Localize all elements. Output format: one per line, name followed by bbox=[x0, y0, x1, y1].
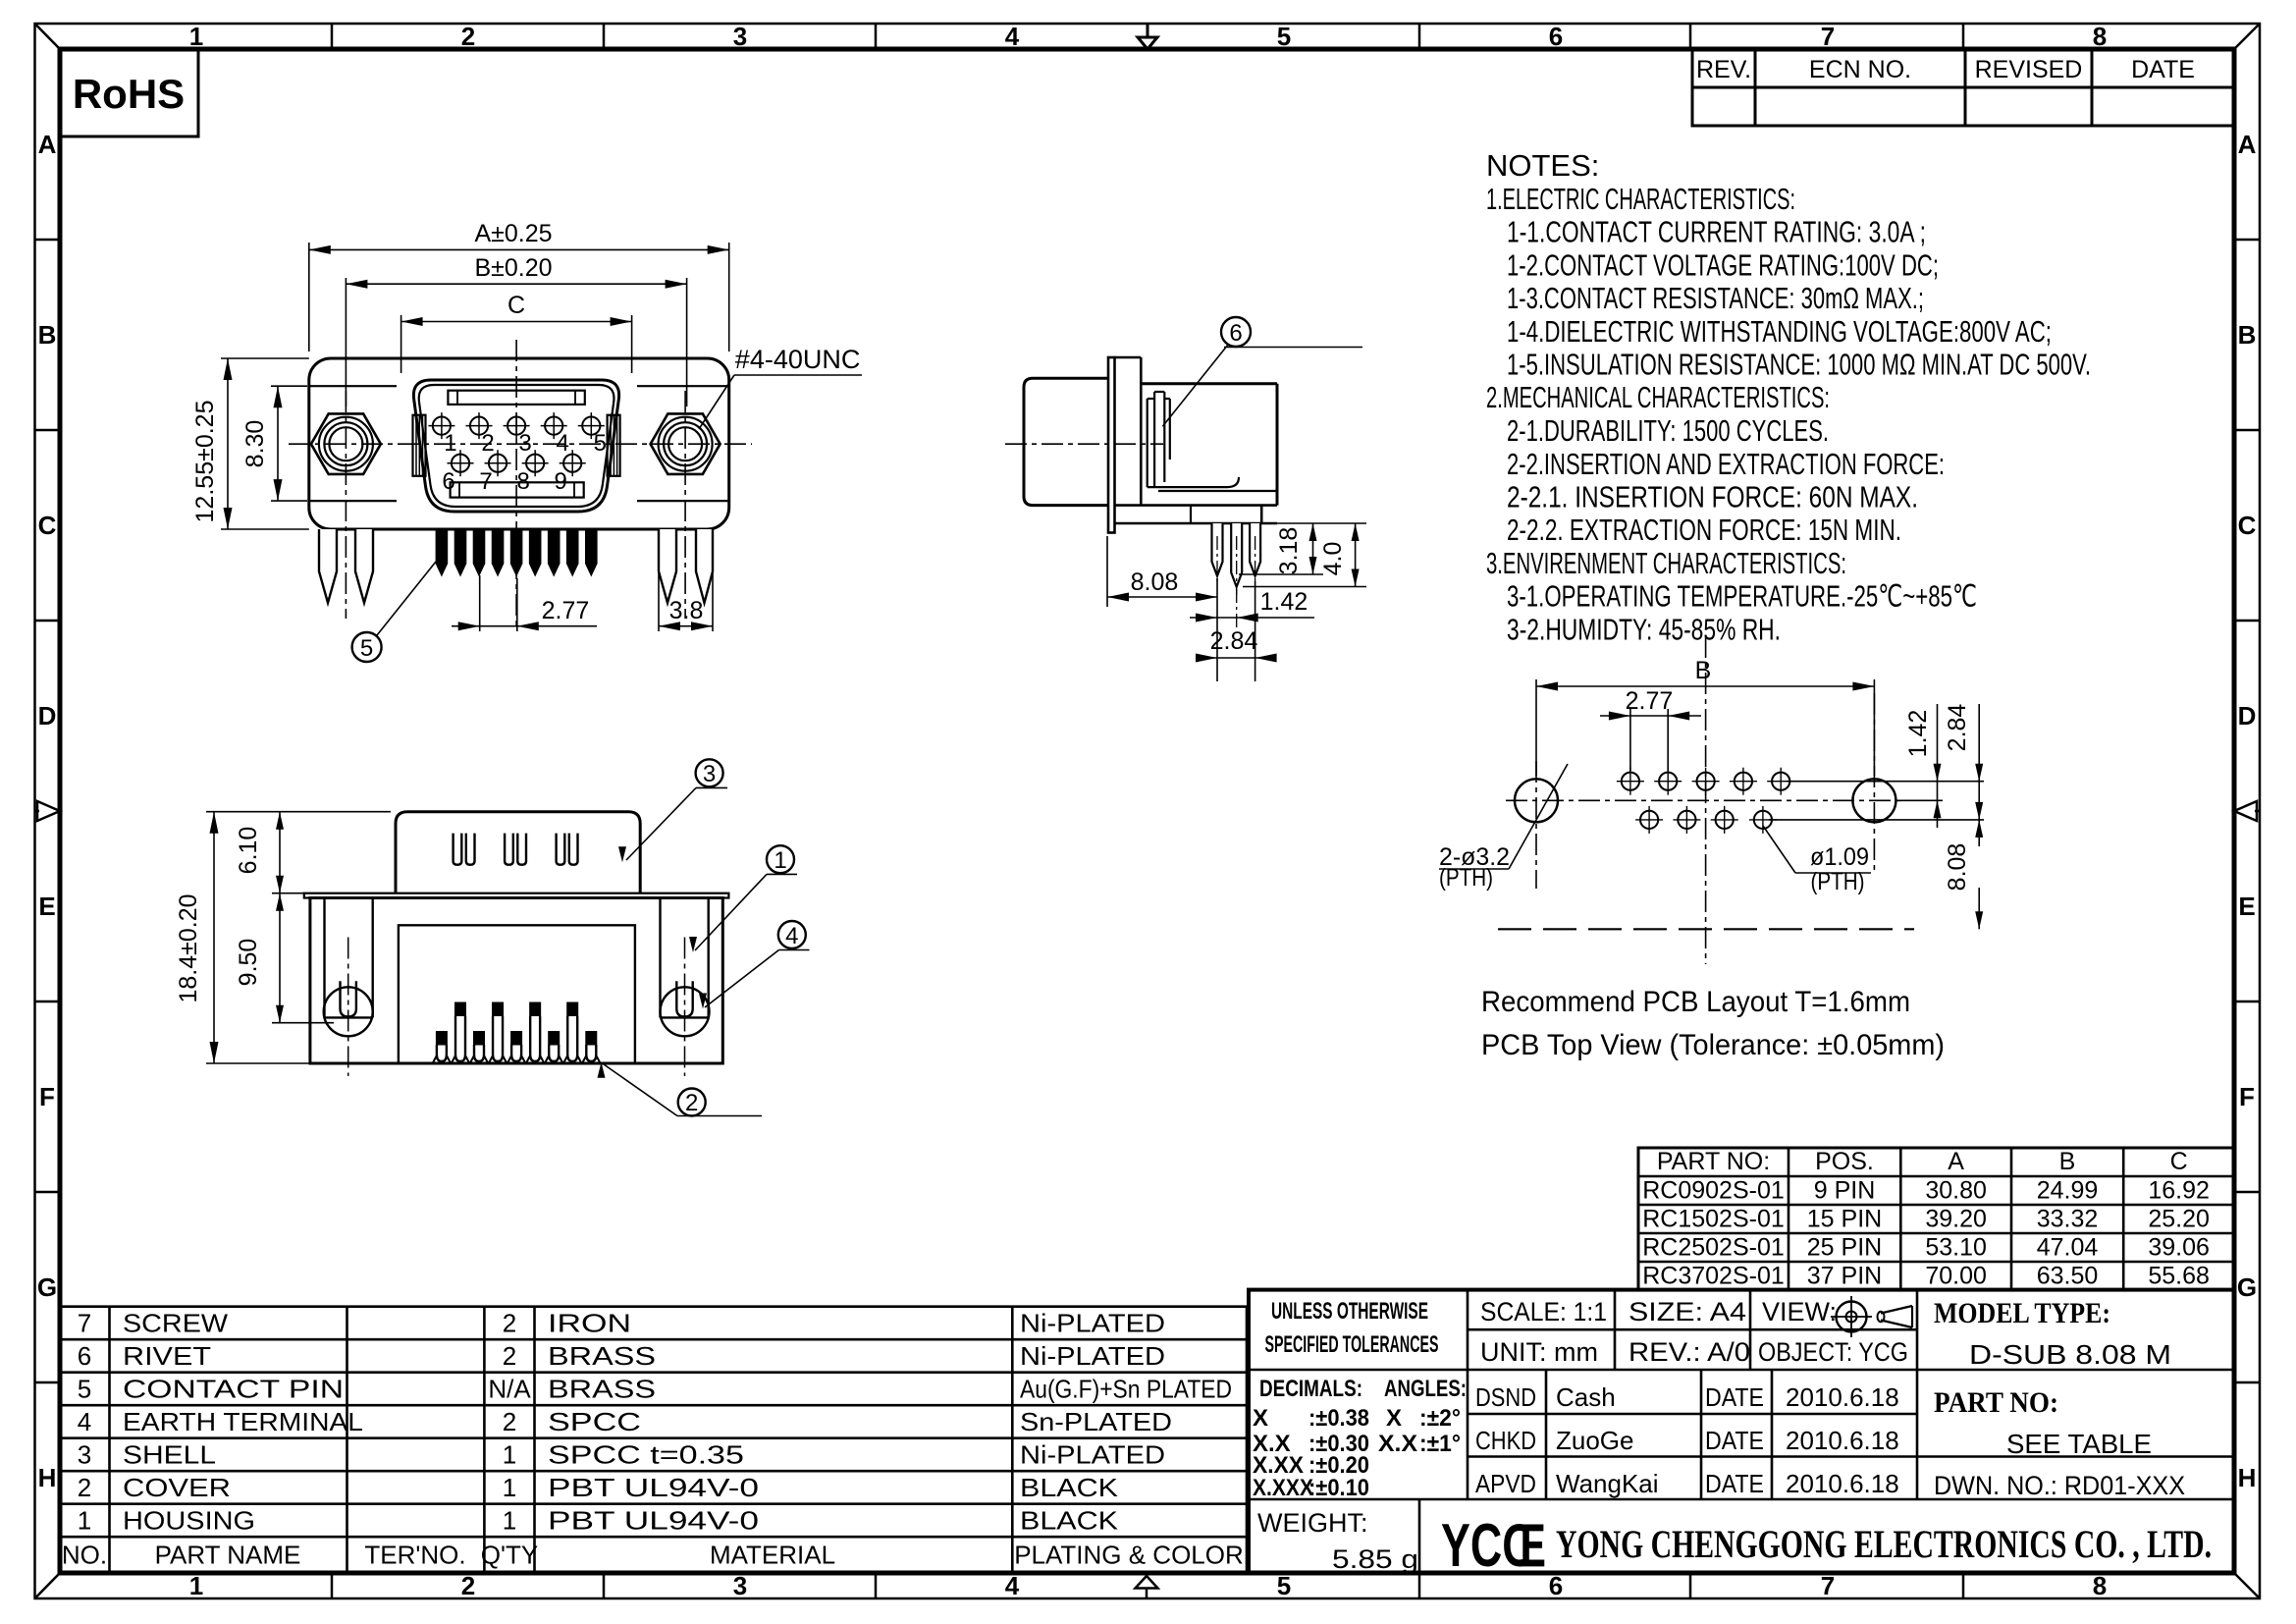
svg-text:DATE: DATE bbox=[1705, 1382, 1764, 1412]
top view: right rivet bbox=[661, 938, 710, 1076]
svg-text:C: C bbox=[507, 292, 525, 319]
svg-text:Ni-PLATED: Ni-PLATED bbox=[1020, 1440, 1165, 1470]
zone tick marks left/right bbox=[35, 240, 2261, 1382]
svg-text:2: 2 bbox=[481, 430, 494, 457]
top view: front row solder tails bbox=[433, 1031, 600, 1063]
svg-text:SEE TABLE: SEE TABLE bbox=[2006, 1429, 2152, 1459]
parts list header row bbox=[62, 1541, 1244, 1570]
front view: flange rolled edges bbox=[309, 386, 729, 501]
svg-text:1.ELECTRIC CHARACTERISTICS:: 1.ELECTRIC CHARACTERISTICS: bbox=[1486, 182, 1795, 216]
svg-text:EARTH TERMINAL: EARTH TERMINAL bbox=[123, 1407, 363, 1436]
label dia1.09 PTH leader bbox=[1763, 826, 1871, 895]
scale size view row bbox=[1480, 1297, 1837, 1326]
svg-text:2010.6.18: 2010.6.18 bbox=[1786, 1426, 1899, 1455]
svg-text:1.42: 1.42 bbox=[1260, 588, 1308, 616]
svg-text:5.85 g: 5.85 g bbox=[1332, 1544, 1418, 1574]
svg-text:7: 7 bbox=[479, 468, 492, 495]
svg-text:4.0: 4.0 bbox=[1319, 542, 1347, 576]
svg-text:1-2.CONTACT VOLTAGE RATING:100: 1-2.CONTACT VOLTAGE RATING:100V DC; bbox=[1507, 248, 1939, 283]
svg-text:PART NO:: PART NO: bbox=[1657, 1148, 1770, 1175]
svg-text:4: 4 bbox=[785, 923, 798, 949]
svg-text:1: 1 bbox=[189, 1571, 203, 1600]
dimension C bbox=[401, 292, 632, 373]
svg-text:OBJECT: YCG: OBJECT: YCG bbox=[1758, 1337, 1908, 1367]
notes text block bbox=[1486, 148, 2091, 647]
label 2-dia3.2 PTH leader bbox=[1439, 764, 1568, 892]
RoHS label box bbox=[60, 49, 198, 136]
svg-text::±0.10: :±0.10 bbox=[1308, 1475, 1369, 1501]
dimension B±0.20 bbox=[346, 254, 686, 406]
svg-text:X.XXX: X.XXX bbox=[1253, 1475, 1313, 1501]
svg-text:REV.: REV. bbox=[1696, 56, 1751, 83]
pcb layout: vertical centerline bbox=[1705, 636, 1707, 964]
svg-text:A±0.25: A±0.25 bbox=[474, 220, 552, 247]
svg-text:1-1.CONTACT CURRENT RATING: 3.: 1-1.CONTACT CURRENT RATING: 3.0A ; bbox=[1507, 215, 1926, 249]
top view: left rivet bbox=[324, 938, 373, 1076]
svg-text:7: 7 bbox=[1821, 22, 1835, 51]
svg-text:YONG CHENGGONG ELECTRONICS CO.: YONG CHENGGONG ELECTRONICS CO. , LTD. bbox=[1556, 1522, 2212, 1566]
svg-text:CHKD: CHKD bbox=[1475, 1426, 1536, 1455]
balloon 1 housing callout bbox=[689, 845, 797, 952]
svg-text:PART NAME: PART NAME bbox=[155, 1541, 301, 1570]
left centering mark arrow bbox=[35, 801, 61, 821]
svg-text:2-2.1. INSERTION FORCE: 60N: 2-2.1. INSERTION FORCE: 60N MAX. bbox=[1507, 480, 1918, 514]
svg-text:53.10: 53.10 bbox=[1925, 1234, 1987, 1262]
pcb layout: top row pin holes bbox=[1617, 768, 1794, 795]
svg-text:C: C bbox=[38, 511, 57, 540]
svg-text:Sn-PLATED: Sn-PLATED bbox=[1020, 1407, 1172, 1436]
svg-text:47.04: 47.04 bbox=[2037, 1234, 2099, 1262]
svg-text:12.55±0.25: 12.55±0.25 bbox=[191, 401, 219, 523]
svg-text:YCŒ: YCŒ bbox=[1441, 1512, 1546, 1580]
svg-text:1-5.INSULATION RESISTANCE: 100: 1-5.INSULATION RESISTANCE: 1000 MΩ MIN.A… bbox=[1507, 348, 2091, 382]
dimension 12.55±0.25 bbox=[191, 358, 309, 529]
svg-text:33.32: 33.32 bbox=[2037, 1206, 2099, 1233]
part no block bbox=[1934, 1386, 2185, 1500]
svg-text:7: 7 bbox=[78, 1309, 91, 1338]
svg-text:#4-40UNC: #4-40UNC bbox=[735, 345, 861, 374]
svg-text:MATERIAL: MATERIAL bbox=[710, 1541, 835, 1570]
svg-text:PLATING & COLOR: PLATING & COLOR bbox=[1014, 1541, 1244, 1570]
svg-text:X.X: X.X bbox=[1378, 1431, 1417, 1457]
svg-text:1-3.CONTACT RESISTANCE: 30mΩ M: 1-3.CONTACT RESISTANCE: 30mΩ MAX.; bbox=[1507, 281, 1924, 315]
zone letters left bbox=[37, 130, 57, 1492]
svg-text:SCREW: SCREW bbox=[123, 1309, 229, 1338]
front view: contact pin 6 bbox=[442, 450, 473, 495]
svg-text:3-1.OPERATING TEMPERATURE.-25℃: 3-1.OPERATING TEMPERATURE.-25℃~+85℃ bbox=[1507, 579, 1977, 614]
front view: D-sub shell inner outline bbox=[419, 385, 614, 507]
svg-text:F: F bbox=[39, 1082, 55, 1111]
pcb extension lines right side bbox=[1769, 782, 1984, 820]
svg-text:7: 7 bbox=[1821, 1571, 1835, 1600]
svg-text:1.42: 1.42 bbox=[1904, 710, 1932, 758]
projection cone symbol bbox=[1878, 1306, 1913, 1327]
svg-text:E: E bbox=[38, 892, 55, 921]
front view: contact pin 4 bbox=[541, 412, 569, 457]
svg-text:6.10: 6.10 bbox=[235, 827, 262, 875]
svg-text:PART NO:: PART NO: bbox=[1934, 1386, 2058, 1419]
front view: right board lock legs bbox=[659, 529, 713, 603]
svg-text:9 PIN: 9 PIN bbox=[1814, 1177, 1876, 1205]
top view: flange plate edge bbox=[304, 893, 729, 898]
model type bbox=[1934, 1297, 2171, 1370]
svg-text:2-2.2. EXTRACTION FORCE: 15N M: 2-2.2. EXTRACTION FORCE: 15N MIN. bbox=[1507, 513, 1901, 547]
dimension 8.08 pcb bbox=[1944, 802, 1983, 929]
front view: solder tail pins bbox=[436, 530, 598, 577]
svg-text:SHELL: SHELL bbox=[123, 1440, 216, 1470]
svg-text:A: A bbox=[38, 130, 57, 159]
svg-text::±2°: :±2° bbox=[1419, 1405, 1461, 1432]
svg-text:H: H bbox=[2238, 1463, 2257, 1492]
zone numbers bottom bbox=[189, 1571, 2107, 1600]
svg-text:DECIMALS:: DECIMALS: bbox=[1259, 1376, 1362, 1402]
svg-text:2-1.DURABILITY: 1500 CYCLES.: 2-1.DURABILITY: 1500 CYCLES. bbox=[1507, 413, 1829, 448]
svg-text:DSND: DSND bbox=[1475, 1382, 1536, 1412]
top view: housing inner cavity bbox=[399, 925, 635, 1063]
zone tick marks top/bottom bbox=[332, 24, 1963, 1598]
front view: contact pin 7 bbox=[479, 450, 510, 495]
svg-text:4: 4 bbox=[78, 1407, 91, 1436]
svg-text:Ni-PLATED: Ni-PLATED bbox=[1020, 1341, 1165, 1371]
svg-text:2: 2 bbox=[461, 22, 475, 51]
svg-text:3: 3 bbox=[733, 22, 747, 51]
svg-text:2.77: 2.77 bbox=[1626, 687, 1674, 715]
svg-text:REVISED: REVISED bbox=[1975, 56, 2083, 83]
svg-text:BRASS: BRASS bbox=[548, 1375, 656, 1404]
svg-text:G: G bbox=[2237, 1272, 2257, 1302]
svg-text:6: 6 bbox=[1229, 320, 1242, 347]
svg-text:C: C bbox=[2170, 1148, 2188, 1175]
svg-text:Au(G.F)+Sn PLATED: Au(G.F)+Sn PLATED bbox=[1020, 1375, 1232, 1404]
dimension 2.84 side bbox=[1196, 581, 1277, 681]
dimension A±0.25 bbox=[309, 220, 729, 352]
svg-text:Cash: Cash bbox=[1556, 1382, 1616, 1412]
svg-text:DATE: DATE bbox=[1705, 1469, 1764, 1498]
svg-text:2: 2 bbox=[685, 1090, 698, 1116]
svg-text:5: 5 bbox=[360, 635, 373, 662]
svg-text:1: 1 bbox=[503, 1506, 516, 1536]
revision table bbox=[1692, 49, 2234, 126]
svg-text:PCB Top View (Tolerance: ±0.05: PCB Top View (Tolerance: ±0.05mm) bbox=[1481, 1029, 1945, 1061]
svg-text:B: B bbox=[2059, 1148, 2076, 1175]
svg-text:2.77: 2.77 bbox=[542, 597, 590, 624]
svg-text:8.08: 8.08 bbox=[1944, 843, 1971, 892]
balloon 2 cover callout bbox=[598, 1062, 763, 1116]
svg-text:WEIGHT:: WEIGHT: bbox=[1257, 1508, 1368, 1538]
svg-text:3: 3 bbox=[703, 761, 716, 787]
svg-text:TER'NO.: TER'NO. bbox=[364, 1541, 465, 1570]
front view: right hex nut with screw hole bbox=[651, 413, 721, 473]
svg-text:E: E bbox=[2238, 892, 2255, 921]
svg-text:1-4.DIELECTRIC WITHSTANDING VO: 1-4.DIELECTRIC WITHSTANDING VOLTAGE:800V… bbox=[1507, 314, 2052, 349]
svg-text:APVD: APVD bbox=[1475, 1469, 1536, 1498]
svg-text:BLACK: BLACK bbox=[1020, 1473, 1119, 1502]
svg-text:9: 9 bbox=[555, 468, 567, 495]
svg-text:3.ENVIRENMENT CHARACTERISTICS:: 3.ENVIRENMENT CHARACTERISTICS: bbox=[1486, 546, 1846, 580]
svg-text:B±0.20: B±0.20 bbox=[474, 254, 552, 282]
svg-text::±1°: :±1° bbox=[1419, 1431, 1461, 1457]
top view: rear row solder tails bbox=[452, 1002, 581, 1063]
front view: contact pin 2 bbox=[466, 412, 495, 457]
svg-text::±0.38: :±0.38 bbox=[1308, 1405, 1369, 1432]
svg-text:RoHS: RoHS bbox=[73, 71, 185, 117]
svg-text:3: 3 bbox=[78, 1440, 91, 1470]
label #4-40UNC with leader bbox=[699, 345, 862, 429]
parts list rows bbox=[78, 1309, 1232, 1536]
svg-text:4: 4 bbox=[1005, 1571, 1020, 1600]
svg-text:N/A: N/A bbox=[488, 1375, 531, 1404]
svg-text:A: A bbox=[1948, 1148, 1964, 1175]
bottom centering mark triangle bbox=[1136, 1576, 1158, 1598]
svg-text:2: 2 bbox=[503, 1309, 516, 1338]
svg-text:3: 3 bbox=[518, 430, 531, 457]
pcb layout captions bbox=[1481, 986, 1945, 1061]
svg-text:Ni-PLATED: Ni-PLATED bbox=[1020, 1309, 1165, 1338]
svg-text:37 PIN: 37 PIN bbox=[1807, 1263, 1882, 1290]
svg-text:ECN NO.: ECN NO. bbox=[1809, 56, 1911, 83]
svg-text:1: 1 bbox=[189, 22, 203, 51]
dimension 2.77 pcb bbox=[1600, 687, 1701, 771]
weight box bbox=[1257, 1508, 1418, 1574]
svg-text:2010.6.18: 2010.6.18 bbox=[1786, 1469, 1899, 1498]
svg-text:DATE: DATE bbox=[2131, 56, 2195, 83]
svg-text:8.30: 8.30 bbox=[241, 420, 269, 468]
side view: front row pin bbox=[1212, 523, 1223, 584]
svg-text:4: 4 bbox=[557, 430, 569, 457]
svg-text:63.50: 63.50 bbox=[2037, 1263, 2099, 1290]
svg-text:2.MECHANICAL CHARACTERISTICS:: 2.MECHANICAL CHARACTERISTICS: bbox=[1486, 380, 1830, 414]
front view: contact pin 8 bbox=[516, 450, 548, 495]
svg-text:DWN. NO.: RD01-XXX: DWN. NO.: RD01-XXX bbox=[1934, 1471, 2185, 1500]
svg-text:1: 1 bbox=[444, 430, 456, 457]
front view: left hex nut centerline bbox=[345, 391, 347, 619]
side view: earth terminal contact detail bbox=[1148, 392, 1277, 491]
svg-text:25.20: 25.20 bbox=[2148, 1206, 2210, 1233]
front view: right shell ground tab hatch bbox=[608, 415, 620, 476]
svg-text:3: 3 bbox=[733, 1571, 747, 1600]
zone numbers top bbox=[189, 22, 2107, 51]
svg-text:HOUSING: HOUSING bbox=[123, 1506, 255, 1536]
front view: contact pin 1 bbox=[428, 412, 456, 457]
svg-text:2: 2 bbox=[503, 1407, 516, 1436]
svg-text:COVER: COVER bbox=[123, 1473, 231, 1502]
svg-text:X: X bbox=[1386, 1405, 1402, 1432]
side view: mounting flange plate bbox=[1108, 357, 1115, 533]
svg-text:BRASS: BRASS bbox=[548, 1341, 656, 1371]
front view: horizontal centerline bbox=[289, 443, 752, 445]
dimension 18.4±0.20 bbox=[175, 812, 391, 1063]
title block frame bbox=[1249, 1290, 2234, 1573]
svg-text:5: 5 bbox=[594, 430, 607, 457]
svg-text:1: 1 bbox=[78, 1506, 91, 1536]
svg-text:70.00: 70.00 bbox=[1925, 1263, 1987, 1290]
front view: contact pin 3 bbox=[504, 412, 532, 457]
dimension 9.50 bbox=[235, 893, 334, 1023]
side view: horizontal centerline bbox=[1005, 443, 1163, 445]
dimension 1.42 pcb bbox=[1904, 704, 1942, 828]
svg-text:1: 1 bbox=[503, 1440, 516, 1470]
dimension 4.0 bbox=[1243, 523, 1366, 587]
dimension 1.42 side bbox=[1190, 588, 1314, 630]
balloon 3 shell callout bbox=[618, 759, 727, 862]
svg-text:2: 2 bbox=[461, 1571, 475, 1600]
svg-text:C: C bbox=[2238, 511, 2257, 540]
top view: left ear slot bbox=[325, 898, 373, 1018]
dimension B pcb bbox=[1536, 657, 1874, 776]
svg-text:X: X bbox=[1253, 1405, 1268, 1432]
svg-text:PBT UL94V-0: PBT UL94V-0 bbox=[548, 1506, 759, 1536]
svg-text:ZuoGe: ZuoGe bbox=[1556, 1426, 1634, 1455]
svg-text:3.18: 3.18 bbox=[1275, 527, 1303, 575]
svg-text:2.84: 2.84 bbox=[1210, 627, 1258, 655]
svg-text:BLACK: BLACK bbox=[1020, 1506, 1119, 1536]
svg-text:RC2502S-01: RC2502S-01 bbox=[1642, 1234, 1785, 1262]
side view: middle pin bbox=[1231, 523, 1242, 595]
svg-text:8: 8 bbox=[2093, 1571, 2107, 1600]
dimension 2.77 front bbox=[452, 575, 597, 631]
svg-text:1: 1 bbox=[503, 1473, 516, 1502]
parts list table bbox=[60, 1307, 1247, 1573]
svg-text:H: H bbox=[38, 1463, 57, 1492]
balloon 5 contact pin callout bbox=[352, 562, 436, 662]
front view: bottom polarization slot bbox=[451, 482, 584, 497]
top view: cover hood outline bbox=[396, 812, 640, 893]
svg-text:REV.: A/0: REV.: A/0 bbox=[1629, 1337, 1750, 1367]
svg-text:6: 6 bbox=[78, 1341, 91, 1371]
svg-text:5: 5 bbox=[1277, 1571, 1291, 1600]
front view: left board lock legs bbox=[319, 529, 373, 603]
svg-text:6: 6 bbox=[442, 468, 454, 495]
balloon 4 earth terminal callout bbox=[699, 921, 810, 1009]
svg-text:6: 6 bbox=[1549, 22, 1563, 51]
svg-text:5: 5 bbox=[1277, 22, 1291, 51]
svg-text:A: A bbox=[2238, 130, 2257, 159]
svg-text:POS.: POS. bbox=[1815, 1148, 1874, 1175]
balloon 6 rivet callout bbox=[1162, 317, 1362, 426]
svg-text:2: 2 bbox=[78, 1473, 91, 1502]
approval rows bbox=[1475, 1382, 1899, 1498]
svg-text:2010.6.18: 2010.6.18 bbox=[1786, 1382, 1899, 1412]
svg-text:8: 8 bbox=[516, 468, 529, 495]
pcb layout: right mounting hole 3.2 bbox=[1852, 693, 1896, 874]
decimals angles tolerances bbox=[1253, 1376, 1467, 1501]
dimension 3.8 bbox=[659, 561, 713, 631]
front view: mounting flange bbox=[309, 358, 729, 529]
svg-text:VIEW:: VIEW: bbox=[1762, 1297, 1837, 1326]
pcb layout: horizontal centerline bbox=[1506, 799, 1903, 801]
front view: left shell ground tab hatch bbox=[413, 415, 426, 476]
svg-text:8.08: 8.08 bbox=[1131, 568, 1179, 596]
svg-text:8: 8 bbox=[2093, 22, 2107, 51]
svg-text:25 PIN: 25 PIN bbox=[1807, 1234, 1882, 1262]
svg-text:2.84: 2.84 bbox=[1944, 704, 1971, 752]
svg-text:NOTES:: NOTES: bbox=[1486, 148, 1599, 183]
front view: left hex nut with screw hole bbox=[311, 413, 381, 473]
top view: right ear slot bbox=[661, 898, 709, 1018]
pcb layout: bottom row pin holes bbox=[1635, 806, 1777, 834]
svg-text:39.06: 39.06 bbox=[2148, 1234, 2210, 1262]
front view: contact pin 5 bbox=[578, 412, 607, 457]
svg-text:D: D bbox=[38, 701, 57, 731]
dimension 8.30 bbox=[241, 386, 307, 501]
unit rev object row bbox=[1480, 1337, 1908, 1367]
svg-text:RIVET: RIVET bbox=[123, 1341, 211, 1371]
side view: rear cover cap bbox=[1024, 378, 1108, 505]
svg-text:55.68: 55.68 bbox=[2148, 1263, 2210, 1290]
part number table bbox=[1638, 1148, 2234, 1290]
svg-text:D-SUB 8.08 M: D-SUB 8.08 M bbox=[1969, 1339, 2171, 1370]
svg-text:B: B bbox=[38, 320, 57, 350]
zone letters right bbox=[2237, 130, 2257, 1492]
svg-text:MODEL TYPE:: MODEL TYPE: bbox=[1934, 1297, 2110, 1329]
svg-text:SPCC t=0.35: SPCC t=0.35 bbox=[548, 1440, 744, 1470]
svg-text:3.8: 3.8 bbox=[669, 597, 704, 624]
svg-text:18.4±0.20: 18.4±0.20 bbox=[175, 893, 202, 1002]
svg-text:UNLESS OTHERWISE: UNLESS OTHERWISE bbox=[1271, 1298, 1428, 1325]
svg-text:IRON: IRON bbox=[548, 1309, 631, 1338]
svg-text:1: 1 bbox=[774, 847, 786, 874]
svg-text:SCALE: 1:1: SCALE: 1:1 bbox=[1480, 1297, 1607, 1326]
front view: vertical centerline bbox=[515, 340, 517, 628]
svg-text:UNIT: mm: UNIT: mm bbox=[1480, 1337, 1598, 1367]
svg-text:RC3702S-01: RC3702S-01 bbox=[1642, 1263, 1785, 1290]
top centering mark triangle bbox=[1138, 25, 1157, 49]
dimension 2.84 pcb bbox=[1944, 704, 1983, 846]
svg-text:4: 4 bbox=[1005, 22, 1020, 51]
svg-text:NO.: NO. bbox=[62, 1541, 107, 1570]
pcb layout: board edge dashed line bbox=[1498, 928, 1914, 930]
svg-text:G: G bbox=[37, 1272, 57, 1302]
svg-text:16.92: 16.92 bbox=[2148, 1177, 2210, 1205]
svg-text:SPCC: SPCC bbox=[548, 1407, 641, 1436]
top view: cover vent slots bbox=[454, 834, 578, 865]
svg-text:WangKai: WangKai bbox=[1556, 1469, 1659, 1498]
svg-text:30.80: 30.80 bbox=[1925, 1177, 1987, 1205]
front view: top polarization slot bbox=[448, 391, 584, 405]
svg-text:24.99: 24.99 bbox=[2037, 1177, 2099, 1205]
tolerance note box bbox=[1265, 1298, 1439, 1358]
side view: insulator bottom step bbox=[1115, 506, 1278, 523]
svg-text:SPECIFIED TOLERANCES: SPECIFIED TOLERANCES bbox=[1265, 1331, 1439, 1358]
svg-text:F: F bbox=[2239, 1082, 2255, 1111]
svg-text:6: 6 bbox=[1549, 1571, 1563, 1600]
dimension 6.10 bbox=[235, 812, 304, 893]
side view: rear row pin bbox=[1250, 523, 1260, 584]
svg-text:PBT UL94V-0: PBT UL94V-0 bbox=[548, 1473, 759, 1502]
svg-text:B: B bbox=[2238, 320, 2257, 350]
svg-text:D: D bbox=[2238, 701, 2257, 731]
dimension 3.18 bbox=[1239, 523, 1323, 574]
first angle view symbol target bbox=[1831, 1296, 1872, 1337]
top view: housing body bbox=[310, 898, 722, 1064]
front view: contact pin 9 bbox=[555, 450, 586, 495]
svg-text:Recommend PCB Layout T=1.6mm: Recommend PCB Layout T=1.6mm bbox=[1481, 986, 1910, 1018]
front view: D-sub shell outer outline bbox=[413, 380, 618, 512]
svg-text:39.20: 39.20 bbox=[1925, 1206, 1987, 1233]
svg-text:CONTACT PIN: CONTACT PIN bbox=[123, 1375, 344, 1404]
svg-text:Q'TY: Q'TY bbox=[481, 1541, 538, 1570]
side view seating plane extension bbox=[1260, 522, 1366, 524]
svg-text:B: B bbox=[1695, 657, 1712, 684]
svg-text:9.50: 9.50 bbox=[235, 939, 262, 987]
svg-text:5: 5 bbox=[78, 1375, 91, 1404]
svg-text:2-2.INSERTION AND EXTRACTION F: 2-2.INSERTION AND EXTRACTION FORCE: bbox=[1507, 447, 1945, 481]
right centering mark arrow bbox=[2234, 801, 2260, 821]
front view: right hex nut centerline bbox=[684, 391, 686, 619]
svg-text:SIZE: A4: SIZE: A4 bbox=[1629, 1297, 1746, 1326]
svg-text:3-2.HUMIDTY: 45-85% RH.: 3-2.HUMIDTY: 45-85% RH. bbox=[1507, 613, 1781, 647]
svg-text:RC0902S-01: RC0902S-01 bbox=[1642, 1177, 1785, 1205]
